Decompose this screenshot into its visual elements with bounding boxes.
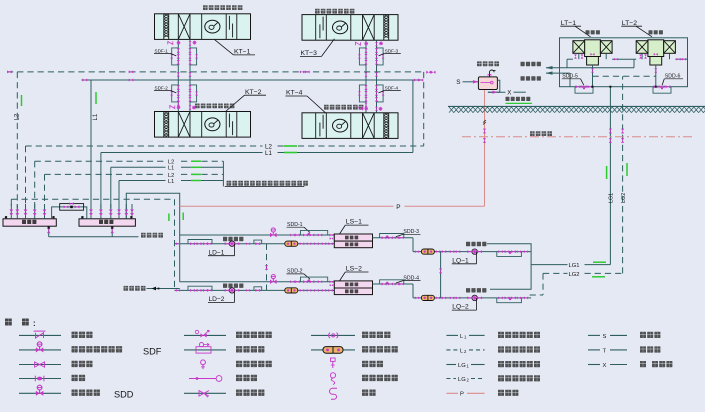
- svg-text:X: X: [603, 363, 607, 369]
- svg-text:LG2: LG2: [569, 272, 580, 278]
- tank overflow to drain X: [488, 80, 500, 92]
- chiller LS-1 evaporator cell: [334, 241, 372, 248]
- drop to cooling pump line: [412, 238, 414, 252]
- svg-text:LQ−1: LQ−1: [452, 257, 469, 264]
- legend motorised butterfly valve 电动蝶阀 SDD: [19, 392, 61, 394]
- bypass bracket on upper line: [301, 230, 328, 235]
- break mark on expansion riser: [483, 120, 486, 125]
- svg-text:LG: LG: [458, 363, 466, 369]
- valves SDF-2: [177, 85, 180, 90]
- LG2 drop to LQ-2 (dashed): [542, 273, 544, 295]
- upper supply line to LS-1: [180, 234, 335, 236]
- AHU KT-3: [302, 15, 398, 41]
- check valve loop: [254, 240, 262, 244]
- header drain valves to floor heating: [48, 226, 50, 237]
- tower outlet drops: [592, 65, 594, 87]
- green underline: [506, 102, 533, 104]
- AHU KT-1 label 组合式空调机组: [203, 5, 208, 10]
- legend pressure gauge 弹簧压力表: [330, 373, 335, 378]
- AHU KT-4: [302, 113, 398, 139]
- valves to chiller: [300, 242, 304, 245]
- descaler 电子除垢仪: [285, 241, 298, 246]
- chilled water pump LD-1 label 冷冻水泵: [223, 237, 227, 241]
- valves on risers at mains crossing: [177, 72, 180, 76]
- svg-text:LS−2: LS−2: [346, 266, 362, 273]
- L1 main riser down: [412, 80, 414, 153]
- riser pipe pair: [177, 39, 179, 111]
- AHU KT-3 label 组合式空调机组: [315, 9, 320, 14]
- svg-text:S: S: [456, 79, 460, 86]
- branch L1 line 2: [111, 166, 166, 168]
- distributor outlet stubs with arrows: [90, 204, 92, 219]
- equalising line between towers (dashed): [593, 75, 656, 77]
- legend thermometer 温度计: [331, 358, 336, 361]
- legend flow switch 流量开关: [184, 349, 226, 351]
- legend flexible connector 挠性接管: [311, 334, 355, 336]
- legend title 图 例:: [5, 319, 12, 326]
- squiggles and asterisk valves near AHU connections: [356, 42, 361, 45]
- expansion tank 膨胀水箱: [478, 77, 497, 90]
- cooling water pump line LQ-2: [413, 297, 531, 299]
- svg-text:SDF-3: SDF-3: [385, 49, 399, 54]
- chilled water pump LD-2 label 冷冻水泵: [223, 284, 227, 288]
- green flow dash on L1: [284, 152, 297, 154]
- green arrow on LG2 riser: [626, 163, 628, 176]
- green flow dash on L2: [284, 145, 297, 147]
- descaler: [421, 295, 434, 300]
- label 接至地暖 upper: [141, 233, 146, 238]
- condenser outlet line LS side: [373, 283, 414, 285]
- pump LD-1: [229, 241, 234, 246]
- valve bypass brackets SDF-1: [172, 48, 179, 65]
- return line from pumps (dashed) to collector: [11, 198, 174, 200]
- legend supply water 上水管 S: [588, 334, 600, 336]
- svg-text:LG: LG: [458, 377, 466, 383]
- legend differential pressure valve 压差调节阀: [184, 334, 226, 336]
- legend electronic descaler 电子除垢仪: [311, 349, 355, 351]
- valves SDF-1: [177, 48, 180, 53]
- cooling water pump line LQ-1: [413, 251, 531, 253]
- L2 main riser down (dashed): [423, 72, 425, 146]
- svg-text:LT−1: LT−1: [561, 20, 576, 27]
- pump cross-connect (dashed): [266, 244, 268, 291]
- squiggles and asterisk valves near AHU connections: [168, 41, 173, 44]
- leader KT-2: [226, 95, 245, 111]
- branch L1 line 4: [119, 180, 166, 182]
- junction dots on tower frame: [609, 86, 611, 88]
- svg-text:L1: L1: [168, 179, 174, 185]
- descaler: [421, 249, 434, 254]
- legend butterfly valve 蝶阀: [19, 378, 61, 380]
- valves on risers at mains crossing: [365, 72, 368, 76]
- L1 line horizontal with label: [101, 152, 263, 154]
- legend check valve 止回阀: [19, 334, 61, 336]
- L2 return main (dashed) upper: [7, 71, 424, 73]
- svg-text:L1: L1: [93, 113, 99, 120]
- label 膨胀水箱: [477, 61, 482, 66]
- motor valve SDD-1: [270, 228, 277, 237]
- chiller LS-1 condenser cell: [334, 234, 372, 241]
- L2 line horizontal (dashed) with label: [26, 145, 263, 147]
- L2 riser (dashed) from main to collector: [16, 72, 18, 209]
- tower outlet valve group right SDD-6: [653, 87, 671, 94]
- valves to chiller: [300, 289, 304, 292]
- svg-text:LG1: LG1: [569, 263, 580, 269]
- discharge bypass bracket: [497, 252, 522, 257]
- supply path to distributor: [126, 193, 179, 282]
- label 接至下水管: [506, 97, 510, 101]
- legend auto air vent 自动放气阀: [201, 360, 206, 365]
- valve at L1 main left end: [82, 78, 87, 81]
- valve on L2 main near KT-1: [129, 70, 134, 73]
- valves: [415, 297, 419, 300]
- svg-text:S: S: [603, 334, 607, 340]
- label 冷却水泵: [466, 288, 470, 292]
- chiller LS-2 condenser cell: [334, 281, 372, 288]
- tower riser stubs: [578, 54, 580, 60]
- motor valve SDD-2: [270, 275, 277, 284]
- bypass bracket on upper line: [301, 277, 328, 282]
- valve bypass brackets SDF-2: [172, 85, 179, 102]
- valves on yard piping: [574, 54, 577, 58]
- valves: [415, 250, 419, 253]
- svg-text:LT−2: LT−2: [622, 20, 637, 27]
- note 接设备管理用房空气处理末端设备: [227, 181, 232, 186]
- LG1 riser to towers: [609, 87, 611, 265]
- descaler 电子除垢仪: [285, 288, 298, 293]
- svg-text:LQ−2: LQ−2: [452, 304, 469, 311]
- svg-text:LG1: LG1: [608, 193, 614, 203]
- legend cooling supply 冷却水供水管 LG1: [446, 364, 456, 366]
- svg-text:L1: L1: [265, 150, 272, 157]
- branch L2 line 1 (dashed): [35, 160, 166, 162]
- bypass bracket SDD-4: [380, 280, 404, 284]
- valve on L1 main near KT-1: [129, 79, 133, 82]
- svg-text:P: P: [460, 392, 464, 398]
- label 找平处理: [530, 131, 535, 136]
- drain line to 接至地暖: [49, 236, 139, 238]
- green arrow LG2: [592, 276, 605, 278]
- tank vent pipe: [490, 70, 495, 77]
- leader KT-1: [215, 40, 234, 55]
- legend expansion pipe 膨胀管 P: [446, 392, 458, 394]
- upper supply line to LS-2: [180, 281, 335, 283]
- leader KT-4: [307, 96, 326, 113]
- L1 riser from main to distributor: [90, 80, 92, 209]
- LG2 return line (dashed): [543, 272, 568, 274]
- cooling water connection frame: [487, 244, 531, 290]
- valves on expansion riser: [483, 129, 486, 134]
- valves SDF-4: [364, 85, 367, 90]
- legend water seal 水封: [330, 388, 338, 399]
- svg-text:P: P: [396, 204, 400, 211]
- tower make-up supply line with arrow: [546, 67, 634, 69]
- riser pipe pair: [365, 40, 367, 113]
- svg-text:LD−2: LD−2: [209, 296, 225, 303]
- svg-text:SDF: SDF: [143, 346, 162, 356]
- tower drain line with arrow: [546, 72, 570, 74]
- ground line with hatching: [448, 105, 705, 107]
- bypass bracket SDD-3: [380, 234, 404, 238]
- cross connect between LQ lines: [440, 252, 442, 298]
- svg-text:SDF-1: SDF-1: [155, 49, 169, 54]
- valve pair: [290, 234, 294, 237]
- valve pair: [290, 280, 294, 283]
- distributor 分水器: [79, 219, 135, 226]
- valve bypass brackets SDF-3: [359, 48, 366, 65]
- green arrows near pump risers: [168, 214, 170, 222]
- pump LD-2: [229, 288, 234, 293]
- svg-text::: :: [33, 319, 36, 328]
- valve bypass brackets SDF-4: [359, 85, 366, 102]
- leader KT-3: [322, 39, 335, 57]
- valves on LG risers at grade: [609, 129, 612, 134]
- tower yard piping upper: [567, 58, 573, 60]
- discharge bypass bracket: [497, 298, 522, 303]
- valves SDF-3: [364, 48, 367, 53]
- L1 left riser down to distributor: [100, 153, 102, 209]
- legend cooling return 冷却水回水管 LG2: [446, 378, 456, 380]
- label 接下水管: [521, 76, 525, 80]
- svg-text:L2: L2: [168, 160, 174, 166]
- AHU KT-2 label 组合式空调机组: [195, 104, 200, 109]
- LG1 supply line: [531, 264, 567, 266]
- green arrow on LG1 riser: [606, 166, 608, 179]
- float valve inside tank: [481, 82, 491, 84]
- legend strainer 水过滤器: [184, 392, 226, 394]
- collector vertical for terminal branches: [222, 161, 224, 186]
- check valve loop: [254, 287, 262, 291]
- green arrow L2 riser: [21, 95, 23, 106]
- backfill line (pink dash-dot): [462, 136, 694, 138]
- valves on L1 main: [414, 78, 419, 81]
- svg-text:KT−4: KT−4: [286, 90, 303, 97]
- valve pair on L2 main near KT-3: [300, 70, 304, 73]
- svg-text:SDF-2: SDF-2: [155, 86, 169, 91]
- LG2 riser to towers (dashed): [622, 76, 624, 273]
- suction valves: [190, 242, 195, 245]
- valves on L2 main: [426, 71, 431, 74]
- collector 集水器: [3, 219, 56, 226]
- chiller LS-2 evaporator cell: [334, 288, 372, 295]
- cooling tower LT-1: [585, 40, 601, 57]
- label 冷却水泵: [466, 242, 470, 246]
- svg-text:KT−3: KT−3: [301, 50, 318, 57]
- svg-text:L2: L2: [168, 173, 174, 179]
- label 冷却塔 LT-1: [586, 30, 590, 34]
- legend vent pipe 透气管 T: [588, 349, 600, 351]
- legend motorised two-way valve 电动二通调节阀 SDF: [19, 349, 61, 351]
- legend drain pipe 泄排水管 X: [588, 364, 600, 366]
- pump suction line LD-1: [175, 243, 335, 245]
- black junction dots on headers: [5, 216, 7, 218]
- AHU KT-1: [155, 14, 251, 40]
- cooling tower LT-2: [648, 40, 664, 57]
- L1 supply main upper: [81, 79, 422, 81]
- drop to cooling pump line: [412, 284, 414, 298]
- legend chilled supply 冷冻水供水管 L1: [446, 334, 458, 336]
- svg-text:KT−2: KT−2: [245, 89, 262, 96]
- branch L2 line 3 (dashed): [45, 173, 166, 175]
- tower outlet valve group left SDD-5: [575, 87, 593, 94]
- svg-text:SDD: SDD: [114, 390, 134, 400]
- svg-text:L1: L1: [168, 166, 174, 172]
- expansion pipe P horizontal: [180, 205, 394, 207]
- svg-text:X: X: [507, 90, 511, 97]
- label 接上水管: [521, 62, 525, 66]
- svg-text:T: T: [603, 348, 607, 354]
- suction bypass bracket: [188, 240, 212, 244]
- green arrow LG1: [593, 261, 606, 263]
- pump LQ-1: [472, 249, 477, 254]
- suction valves: [190, 289, 195, 292]
- pump LQ-2: [472, 295, 477, 300]
- L2 left riser down to collector: [25, 146, 27, 209]
- svg-text:LG2: LG2: [621, 193, 627, 203]
- expansion pipe riser to tank: [484, 90, 486, 207]
- legend float valve 浮球阀: [189, 378, 216, 380]
- AHU KT-4 label 组合式空调机组: [324, 105, 329, 110]
- pump suction line LD-2: [175, 289, 335, 291]
- svg-text:KT−1: KT−1: [234, 49, 251, 56]
- AHU KT-2: [155, 112, 251, 138]
- label 冷却塔 LT-2: [649, 30, 653, 34]
- svg-text:SDF-4: SDF-4: [385, 86, 399, 91]
- collector inlet stubs with arrows: [10, 204, 12, 219]
- bypass between headers with differential pressure valve: [52, 207, 87, 219]
- label 接至地暖 lower: [124, 286, 129, 291]
- legend chilled return 冷冻水回水管 L2: [446, 349, 458, 351]
- svg-text:LD−1: LD−1: [209, 249, 225, 256]
- svg-text:LS−1: LS−1: [346, 219, 362, 226]
- legend stop valve 截止阀: [19, 364, 61, 366]
- suction bypass bracket: [188, 286, 212, 290]
- floor heating return line with valve: [147, 288, 180, 290]
- green arrow L1 riser: [95, 92, 97, 104]
- tower enclosure frame: [560, 38, 688, 87]
- chilled return riser (dashed) to pumps: [174, 199, 176, 290]
- condenser outlet line LS side: [373, 237, 414, 239]
